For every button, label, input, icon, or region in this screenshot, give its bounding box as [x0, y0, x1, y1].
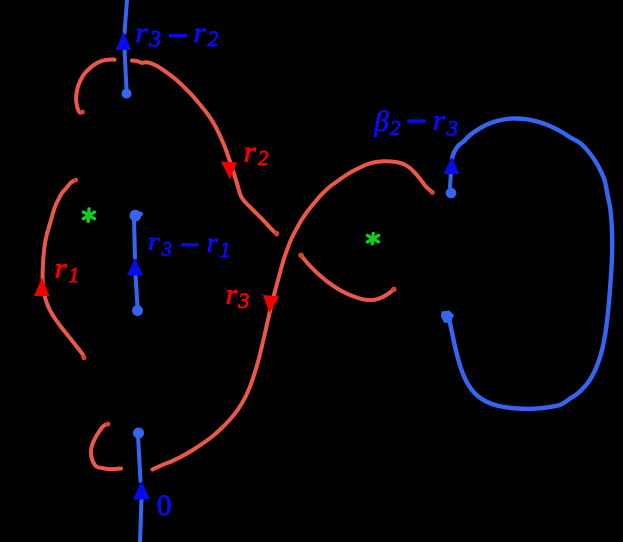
endpoint hook right	[441, 311, 454, 324]
svg-text:r: r	[207, 227, 218, 257]
arrowhead r3	[263, 295, 280, 313]
red short arc inside right lobe	[301, 255, 394, 300]
svg-text:r: r	[244, 135, 256, 168]
svg-text:3: 3	[446, 116, 458, 141]
endpoint dot right	[446, 188, 457, 199]
asterisk marked point right	[367, 234, 378, 244]
svg-text:1: 1	[220, 237, 231, 261]
arrowhead r3-r1	[127, 258, 143, 276]
svg-text:2: 2	[258, 146, 269, 170]
svg-text:2: 2	[390, 116, 401, 140]
endpoint dot bottom	[133, 428, 144, 439]
arrowhead r3-r2	[116, 32, 132, 50]
svg-text:r: r	[226, 278, 238, 310]
arrowhead beta2-r3	[444, 157, 460, 174]
red curve r2 left piece (passes under blue arc r3-r2)	[76, 60, 114, 113]
red curve r1	[43, 180, 84, 358]
blue arc 0 upper line	[138, 436, 141, 481]
red curve r3 bottom hook piece (passes under blue arc 0)	[91, 424, 121, 469]
red stroke end blobs	[73, 110, 435, 427]
svg-text:r: r	[135, 17, 148, 49]
blue arc r3-r1 upper line	[134, 220, 135, 258]
svg-text:3: 3	[149, 27, 162, 52]
red curve r2 main piece	[132, 61, 277, 235]
svg-text:r: r	[433, 106, 445, 137]
blue arc 0 lower line	[140, 499, 142, 542]
red curve r3 main strand	[153, 161, 433, 469]
asterisk marked point left	[83, 209, 94, 222]
svg-text:r: r	[55, 252, 68, 284]
svg-text:r: r	[193, 17, 206, 49]
blue arc r3-r2 lower line	[125, 49, 127, 89]
endpoint dot top	[122, 89, 132, 99]
svg-text:1: 1	[69, 263, 80, 287]
svg-text:r: r	[148, 228, 160, 255]
endpoint dot middle top	[130, 210, 142, 222]
arrowhead r2	[221, 162, 237, 180]
blue loop beta2-r3 stem	[450, 163, 452, 187]
arrowhead 0	[133, 481, 150, 500]
svg-text:2: 2	[208, 26, 219, 51]
blue loop beta2-r3	[449, 118, 612, 408]
svg-text:3: 3	[237, 288, 249, 313]
endpoint dot middle bottom	[132, 305, 143, 316]
svg-text:β: β	[373, 105, 389, 137]
blue arc r3-r2 upper line	[125, 0, 128, 33]
svg-text:3: 3	[161, 239, 172, 261]
arrowhead r1	[34, 278, 50, 297]
svg-text:0: 0	[157, 489, 172, 522]
blue arc r3-r1 lower line	[136, 274, 138, 307]
